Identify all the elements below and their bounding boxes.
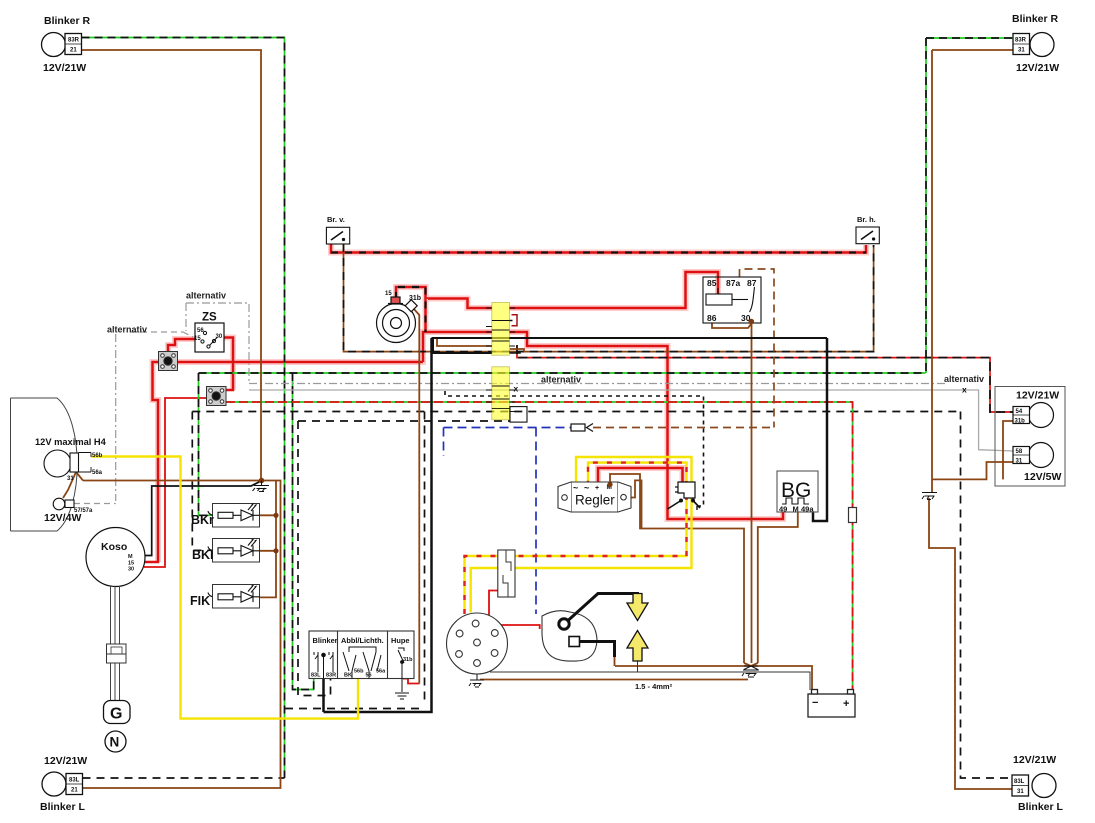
wire: gray solid alternativ line to tail 58 [249,390,1013,451]
lamp: Blinker R top-left bulb [42,33,82,57]
wire: brown Blinker R rear ground stub [932,49,1013,51]
wire: brown horn 31b to Hupe switch [414,309,420,684]
horn: horn body [377,297,418,343]
wire: black Koso M to ground [137,481,261,556]
wire: black dashed drop beside horn wire [424,412,426,701]
svg-text:12V/21W: 12V/21W [1013,754,1056,766]
wire: red core ZS 15 feed down to Koso 15 [142,240,866,562]
svg-text:M: M [128,554,133,560]
wire: red Koso 30 to connector 2 [144,398,540,684]
svg-text:Hupe: Hupe [391,636,409,645]
gauge: Koso speedometer [86,528,145,587]
lamp: tail bulb 5W [1013,443,1054,468]
wire: red horn switch 31b jog [403,679,420,684]
svg-text:12V/5W: 12V/5W [1024,471,1061,483]
wire: red ZS 30 down to connector 2 [222,338,233,391]
svg-text:G: G [110,706,122,723]
svg-text:85: 85 [707,278,717,288]
svg-text:31b: 31b [403,657,413,663]
wire: brown BKl output [260,550,277,552]
wire: brown branch to tail lamp 31 [932,462,1013,479]
lamp: tail light assembly box [995,387,1065,487]
svg-text:12V/21W: 12V/21W [44,755,87,767]
wire: green-black dashed blinker bus y373 [82,38,1014,779]
svg-text:12V maximal H4: 12V maximal H4 [35,437,107,447]
junction: brown LED feed dots [273,513,278,554]
indicator: FIK LED box [213,585,260,609]
wire: brown ground run to Blinker L front [83,481,281,789]
wire: red brake feed Br.v. to Br.h. (red-black dashed) [331,240,866,253]
wire: red Regler + to emergency switch [598,468,683,482]
wire: black dash overlay on horn/brake highlighted wires [331,253,866,333]
wire: yellow headlight 56b loop [91,457,692,719]
wire: black dash overlay blinker bus [199,372,926,374]
wire: red connector to ZS terminal 15 [168,339,197,352]
wire: brown ground bundle merge [744,663,751,666]
svg-text:~: ~ [573,483,578,493]
stub: upper block pin links [510,315,521,353]
svg-text:x: x [514,384,519,394]
svg-text:83R: 83R [68,38,80,44]
svg-text:BKl: BKl [192,548,214,562]
svg-text:21: 21 [71,788,78,794]
switch: emergency cutoff near Regler [675,482,695,498]
wire: gray dashes at alternativ labels [74,332,193,504]
svg-text:31: 31 [1016,459,1023,465]
svg-text:30: 30 [128,567,134,573]
svg-text:x: x [962,385,967,395]
connector: 4-pin plug lower (on red 30 feed) [207,387,227,406]
svg-text:31: 31 [1017,789,1024,795]
svg-text:FIK: FIK [190,594,210,608]
wire: black dashed bus to connector block [298,420,510,422]
svg-text:Regler: Regler [575,493,615,508]
wire: red ignition feed from kill switch to coil [489,591,540,630]
node: relay terminal 30 junction [749,319,755,325]
fuse: main fuse on battery feed [849,508,857,523]
wire: thin black engine ground strap 1.5-4mm2 [490,661,810,690]
svg-text:−: − [812,697,818,709]
wire: black-red dashed brake light wire to tail 54 [517,345,1013,412]
svg-text:Blinker L: Blinker L [1018,801,1064,813]
ground: central engine ground [742,666,759,677]
wire: brown BKr output [260,514,277,516]
svg-text:12V/21W: 12V/21W [43,62,86,74]
svg-text:86: 86 [707,313,717,323]
switch: Br. v. front brake switch [326,227,349,244]
wire: blue dashed pickup wire [444,428,572,615]
svg-text:87a: 87a [726,278,740,288]
wire: red feed to relay 85 coil [510,272,719,308]
svg-text:Blinker: Blinker [313,636,338,645]
wire: black dashed frame bottom [285,708,424,710]
wire: black dashed run to Blinker L rear [961,412,1013,779]
wire: black short-dash alternativ ignition line [445,391,704,506]
ground: generator ground [469,674,484,687]
wire: black dash overlay Blinker R front run [82,38,285,779]
svg-text:87: 87 [747,278,757,288]
svg-text:Abbl/Lichth.: Abbl/Lichth. [341,636,384,645]
connectorblock: upper yellow multi-pin connector [486,302,515,355]
wire: brown tail ground down to Blinker L rear [929,498,1012,789]
svg-text:Br. v.: Br. v. [327,215,345,224]
wire: brown headlight 31 stub [76,472,83,481]
regulator: Regler [558,482,631,512]
svg-text:83L: 83L [311,673,321,679]
generator: flywheel magneto [447,613,508,674]
coil: ignition coil/CDI blob [542,611,597,661]
svg-text:58: 58 [1016,449,1023,455]
svg-text:56: 56 [366,673,372,679]
arrow: yellow down arrow [627,594,648,662]
connector: speedo cable joint [107,644,127,663]
svg-text:31b: 31b [409,295,421,302]
svg-text:21: 21 [70,48,77,54]
lamp: Blinker R top-right bulb [1013,33,1054,57]
svg-text:alternativ: alternativ [541,375,581,385]
svg-text:alternativ: alternativ [186,291,226,301]
svg-text:~: ~ [584,483,589,493]
wire: red dash overlay on yellow-red generator wire [465,463,687,614]
wire: gray alternativ dash-dot bus [116,303,946,501]
wire: black dash overlay on horn branch [396,287,426,332]
wire: yellow generator to Regler [471,457,692,613]
wire: brown stub block to brake line [510,349,524,352]
lamp: Blinker L bottom-right bulb [1012,774,1056,798]
wire: brown Regler M to ground bundle [610,474,744,663]
wire: brown LED indicator common [260,481,277,598]
wire: brown-black dashed brake switch link [344,244,874,352]
svg-text:31: 31 [67,476,74,482]
svg-text:+: + [595,485,599,492]
wire: brown Regler + terminal loop [626,480,642,528]
flasher: BG Blinkgeber [777,471,818,512]
wire: brown Blinker R front ground run [82,50,262,481]
wire: black dash overlay BKr drop [199,373,213,515]
wire: brown relay 86 link [712,323,751,328]
switch: Br. h. rear brake switch [856,227,879,244]
svg-text:54: 54 [1016,409,1023,415]
wire: brown relay 30 to ground bundle [751,322,753,663]
indicator: BKr LED box [213,504,260,528]
node: Regler M terminal junction [607,482,612,487]
arrow: yellow up arrow [627,631,648,662]
wire: black dashed drop to switch 83R [298,421,331,696]
wire: red highlighted main bus Koso 15 feed [142,362,423,562]
svg-text:15: 15 [385,291,392,297]
svg-text:56a: 56a [376,669,386,675]
wire: yellow-red generator to Regler [465,463,687,614]
svg-text:49: 49 [779,505,787,514]
svg-text:Br. h.: Br. h. [857,215,876,224]
wire: brown coil ground run [615,665,751,667]
svg-text:BK: BK [344,673,352,679]
killswitch: tall switch rect above generator [498,550,515,597]
svg-text:15: 15 [194,336,201,342]
wire: heavy black flasher / switch lines [432,338,828,353]
connector: bullet connector with arrow on blue/brown wire [571,424,593,432]
svg-text:83R: 83R [326,673,336,679]
connectorblock: lower yellow multi-pin connector [486,367,515,420]
wire: highlighted red glow halo for main ignition circuit [153,240,867,562]
wire: brown headlight ground bus [83,480,261,482]
svg-text:alternativ: alternativ [944,374,984,384]
svg-text:Koso: Koso [101,541,127,553]
relay: main relay box 85/87a/87/86/30 [703,277,761,323]
connector: small black box right of lower block [510,407,527,423]
headlight: parking light bulb 12V/4W [53,498,74,510]
wire: brown BG M to ground bundle [758,512,798,663]
wire: green-black blinker bus [199,372,926,374]
svg-text:Blinker R: Blinker R [1012,13,1059,25]
svg-text:M: M [793,505,799,514]
wire: red-green dashed battery main feed [226,402,853,690]
wire: brown stub to connector block [437,338,492,346]
svg-text:56b: 56b [92,453,103,459]
ground: main left ground at junction [259,478,265,484]
switchcluster: handlebar switch box [309,631,414,679]
wire: green-black Blinker R rear stub [926,37,1013,39]
svg-text:+: + [843,698,849,710]
symbol: G gearbox [104,701,131,724]
wire: black dashed buses [83,412,1013,779]
switch: Hupe horn button contacts [398,648,404,651]
svg-text:1.5 - 4mm²: 1.5 - 4mm² [635,682,673,691]
cable: speedometer drive cable [111,586,120,701]
wire: black dash overlay on brake bus [331,251,866,253]
svg-text:ZS: ZS [202,312,217,324]
svg-text:BKr: BKr [191,513,214,527]
svg-text:31: 31 [1018,48,1025,54]
wire: black dash overlay 83L drop [293,373,314,690]
wire: red riser bus to fuse block pin [423,332,492,362]
svg-text:56b: 56b [354,669,364,675]
connector: 4-pin plug upper (on red feed) [159,352,178,371]
svg-text:Blinker R: Blinker R [44,15,91,27]
switch: ZS ignition switch box [195,323,224,352]
wire: green-black drop to BKr indicator [199,373,213,515]
svg-text:31b: 31b [1015,419,1026,425]
wire: brown Blinker R rear down to tail ground [931,50,933,492]
svg-text:30: 30 [216,334,223,340]
battery: 12V battery [808,690,855,718]
wire: brown generator ground run [480,679,748,681]
headlight: reflector arc [11,398,78,531]
ground: tail light ground [922,493,937,500]
wire: brown dashed relay 87a ignition cut line [593,269,774,428]
wire: black dashed rear blinker bus [192,411,960,413]
svg-text:12V/21W: 12V/21W [1016,390,1059,402]
svg-text:83R: 83R [1015,38,1027,44]
svg-text:56a: 56a [92,470,103,476]
wire: brown ground to battery minus [751,666,812,690]
wire: brown ground/lamp wires [63,50,1013,789]
svg-text:alternativ: alternativ [107,325,147,335]
svg-text:83L: 83L [1014,779,1025,785]
lamp: Blinker L bottom-left bulb [42,772,83,796]
wire: black dashed Blinker L front stub [83,777,285,779]
wire: brown parking light feed [63,472,76,498]
symbol: N neutral indicator [105,731,126,752]
wire: red from fuse block to BG flasher 49 via emergency switch [510,332,784,519]
wire: green-black drop to switch 83L [293,373,314,690]
wire: green-black Blinker R front to switch 83R run [82,38,285,779]
svg-text:12V/21W: 12V/21W [1016,62,1059,74]
lamp: brake bulb 21W [1013,403,1054,428]
svg-text:N: N [110,735,120,750]
wire: brown tail lamp 31b jog [1003,421,1013,479]
svg-text:12V/4W: 12V/4W [44,512,81,524]
svg-text:83L: 83L [69,778,80,784]
wire: black dash overlay Blinker R rear stub [926,37,1013,39]
wire: black dashed drop to BKl indicator [192,412,212,551]
wire: red Koso 30 to connector 2 [144,398,207,567]
wire: red horn 15 branch (red-black dashed) [396,287,426,332]
headlight: H4 bulb 12V maximal [44,450,91,477]
svg-text:Blinker L: Blinker L [40,801,86,813]
svg-text:49a: 49a [801,505,814,514]
indicator: BKl LED box [213,539,260,563]
